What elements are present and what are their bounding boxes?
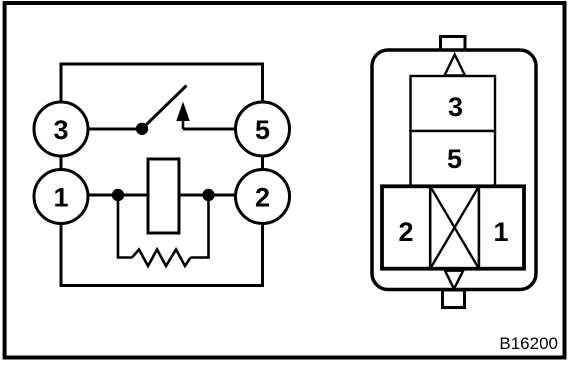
wire: left leg down to resistor <box>118 195 132 258</box>
wire: top jumper from terminal 3 to terminal 5 <box>61 64 263 102</box>
svg-text:5: 5 <box>255 115 270 145</box>
svg-text:3: 3 <box>53 115 68 145</box>
connector top tab <box>441 37 466 51</box>
junction dot left <box>112 189 124 201</box>
pin 5 cavity <box>411 131 496 186</box>
resistor <box>132 250 191 267</box>
terminal 2 <box>236 170 290 224</box>
blocked cavity X <box>430 186 479 268</box>
wire: resistor to right leg up <box>191 195 209 258</box>
svg-text:1: 1 <box>53 183 68 213</box>
svg-text:1: 1 <box>493 217 508 247</box>
terminal 5 <box>236 102 290 156</box>
cavity divider left <box>429 186 432 268</box>
wire: terminal 3 to terminal 1 <box>60 156 63 170</box>
keying arrow up <box>445 55 466 76</box>
svg-text:3: 3 <box>448 92 463 122</box>
junction dot right <box>202 189 214 201</box>
keying arrow down <box>445 271 463 289</box>
pin 3 cavity <box>411 76 496 131</box>
cavity divider right <box>478 186 481 268</box>
switch junction dot <box>136 123 148 135</box>
svg-text:2: 2 <box>255 183 270 213</box>
wire: bottom jumper from terminal 1 to terminal 2 <box>61 223 263 286</box>
terminal 1 <box>34 170 88 224</box>
switch actuator arrow <box>177 103 189 129</box>
wire: terminal 3 to switch junction <box>88 128 142 131</box>
lower cavity row <box>382 186 524 268</box>
svg-text:B16200: B16200 <box>499 334 558 353</box>
terminal 3 <box>34 102 88 156</box>
switch blade <box>142 86 187 129</box>
wire: switch arrow to terminal 5 <box>183 128 236 131</box>
svg-text:5: 5 <box>447 144 462 174</box>
wire: terminal 5 to terminal 2 <box>261 156 264 170</box>
wire: terminal 1 to coil <box>88 194 148 197</box>
wire: coil to terminal 2 <box>179 194 236 197</box>
svg-text:2: 2 <box>398 217 413 247</box>
connector body <box>372 50 536 290</box>
relay coil <box>148 159 179 233</box>
connector bottom tab <box>443 290 465 308</box>
